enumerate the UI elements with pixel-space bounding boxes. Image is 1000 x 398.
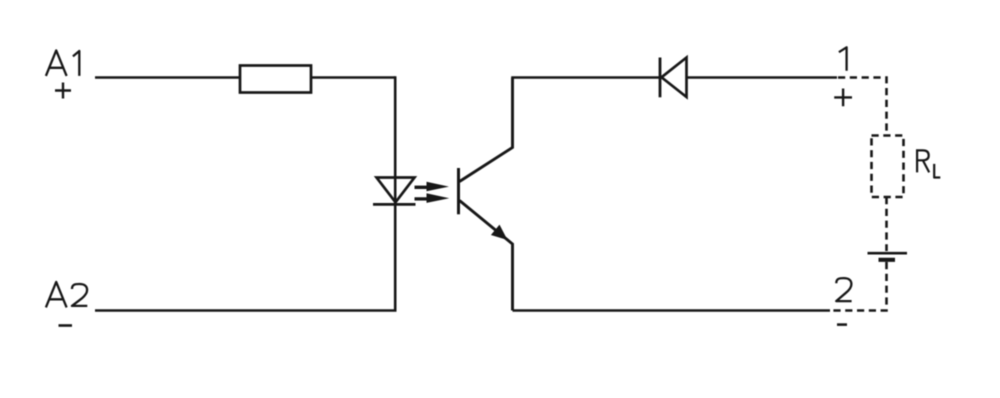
battery B1 short plate <box>879 258 896 262</box>
wire resistor to LED anode <box>311 76 395 79</box>
battery B1 long plate <box>868 252 908 255</box>
dashed wire RL to battery <box>885 197 888 251</box>
phototransistor Q1 emitter <box>460 201 513 311</box>
wire LED cathode to A2 rail <box>95 204 395 310</box>
wire diode to terminal 1 <box>687 76 838 79</box>
polarity - at A2 <box>59 324 73 327</box>
LED D1 cathode bar <box>373 203 416 206</box>
label RL <box>916 149 940 177</box>
phototransistor Q1 base bar <box>457 168 460 214</box>
load resistor RL (dashed) <box>872 136 904 198</box>
wire emitter to terminal 2 <box>513 309 831 312</box>
terminal label 2 <box>836 278 851 301</box>
wire A1 to resistor <box>95 76 240 79</box>
terminal label A2 <box>46 282 87 308</box>
phototransistor Q1 emitter arrowhead <box>491 225 508 240</box>
phototransistor Q1 collector <box>460 78 513 182</box>
diode D2 triangle <box>662 58 687 98</box>
resistor R1 <box>240 66 311 93</box>
polarity - at terminal 2 <box>837 323 847 326</box>
terminal label A1 <box>46 50 79 76</box>
terminal label 1 <box>839 47 847 70</box>
diode D2 cathode bar <box>659 58 662 98</box>
wire LED anode vertical <box>394 76 397 205</box>
dashed wire battery to terminal 2 <box>830 262 887 311</box>
wire collector to diode <box>511 76 660 79</box>
polarity + at terminal 1 <box>834 89 852 107</box>
dashed wire terminal 1 to load RL <box>838 78 887 137</box>
light arrow upper <box>415 182 450 191</box>
LED D1 triangle <box>377 178 415 203</box>
light arrow lower <box>415 193 450 203</box>
polarity + at A1 <box>55 83 71 99</box>
